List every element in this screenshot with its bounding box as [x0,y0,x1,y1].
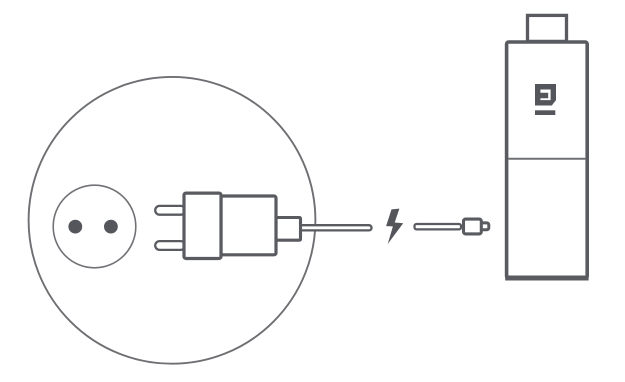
charger body [221,196,276,255]
wall outlet circle (large) [29,77,316,364]
power bank top terminal [528,15,567,41]
charger prong top [155,206,185,215]
socket circle [53,185,136,268]
power bank divider line [508,158,585,160]
charger strain relief [276,218,301,241]
charger plug section [184,193,221,258]
socket pin hole left [68,220,82,234]
lightning bolt [386,209,403,244]
charger prong bottom [155,241,185,250]
usb connector tip [478,223,489,230]
socket pin hole right [104,220,118,234]
usb cable lead [415,224,462,229]
charger output cable [300,225,372,230]
usb connector body [464,219,482,234]
power bank body [507,42,588,278]
power bank bottom edge (thicker) [505,276,588,281]
Mi logo (rotated) [535,84,556,115]
